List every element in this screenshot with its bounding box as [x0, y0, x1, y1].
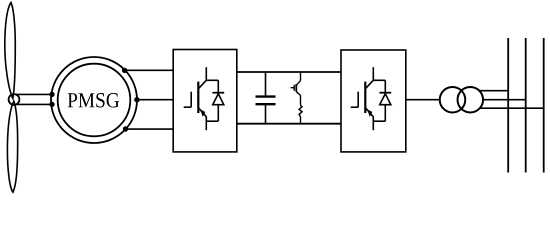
transformer T1 primary circle: [440, 87, 466, 113]
transistor Q3 body bar: [364, 82, 366, 113]
transistor Q2 gate bar: [293, 85, 295, 91]
wire grid phase B: [483, 99, 526, 101]
wire Q3 emitter stub: [372, 117, 374, 122]
wire grid phase C: [480, 107, 544, 109]
capacitor C1 bottom plate: [256, 103, 276, 105]
transistor Q3 emitter arrow: [367, 109, 372, 117]
wire Q3 bottom link: [373, 120, 385, 122]
diode D1 bottom lead: [217, 105, 219, 122]
capacitor C1 bottom lead: [265, 104, 267, 123]
diode D2 bottom lead: [384, 105, 386, 122]
transistor Q2 gate lead: [291, 87, 295, 89]
label PMSG: [68, 93, 119, 107]
transistor Q3 gate lead: [351, 106, 359, 108]
resistor R1 zigzag: [299, 105, 302, 116]
transistor Q3 emitter angle: [365, 108, 373, 117]
stator wire phase B: [137, 99, 173, 101]
diode D1 top lead: [217, 80, 219, 93]
turbine blade top: [5, 3, 16, 99]
diode D2 triangle: [380, 94, 391, 105]
diode D2 cathode bar: [379, 92, 391, 94]
wire DC bus bottom: [237, 123, 341, 125]
grid bus bar 2: [525, 38, 527, 173]
diode D1 triangle: [213, 94, 224, 105]
diode D1 cathode bar: [212, 92, 224, 94]
wire Q2 to resistor: [300, 95, 302, 105]
generator G1 outer circle: [51, 57, 137, 143]
grid bus bar 3: [543, 38, 545, 173]
shaft junction dot lower: [50, 103, 54, 107]
converter U1 box (rectifier): [173, 50, 237, 152]
converter U2 box (inverter): [341, 50, 406, 152]
wire Q1 bottom terminal: [205, 121, 207, 130]
transistor Q2 collector angle: [296, 81, 300, 86]
shaft junction dot upper: [50, 93, 54, 97]
wire Q1 bottom link: [206, 120, 218, 122]
turbine hub: [9, 94, 20, 105]
generator G1 inner circle: [58, 64, 131, 137]
node phase A dot: [123, 69, 127, 73]
transistor Q1 body bar: [197, 82, 199, 113]
turbine blade bottom: [7, 101, 17, 192]
wire Q3 top link: [373, 79, 385, 81]
resistor R1 bottom lead: [300, 117, 302, 124]
transistor Q2 chopper drop: [300, 72, 302, 81]
wire Q3 bottom terminal: [372, 121, 374, 130]
stator wire phase A: [125, 69, 173, 71]
transistor Q3 gate bar: [357, 92, 359, 108]
transformer T1 secondary circle: [458, 87, 484, 113]
transistor Q3 collector stub: [372, 67, 374, 80]
wire Q1 top link: [206, 79, 218, 81]
capacitor C1 top plate: [256, 95, 276, 97]
wire Q1 emitter stub: [205, 117, 207, 122]
stator wire phase C: [126, 128, 173, 130]
transistor Q3 collector angle: [365, 80, 373, 89]
transistor Q1 collector stub: [205, 67, 207, 80]
node phase C dot: [124, 127, 128, 131]
capacitor C1 top lead: [265, 72, 267, 96]
diode D2 top lead: [384, 80, 386, 93]
transistor Q1 gate bar: [190, 92, 192, 108]
transistor Q1 collector angle: [198, 80, 206, 89]
shaft wire upper: [16, 93, 52, 95]
transistor Q1 emitter angle: [198, 108, 206, 117]
node phase B dot: [135, 98, 139, 102]
grid bus bar 1: [507, 38, 509, 173]
transistor Q1 emitter arrow: [200, 109, 205, 117]
transistor Q1 gate lead: [184, 106, 192, 108]
wire DC bus top: [237, 71, 341, 73]
transistor Q2 emitter angle: [296, 92, 300, 96]
wire inverter output: [406, 99, 440, 101]
shaft wire lower: [16, 103, 52, 105]
wire grid phase A: [480, 90, 509, 92]
transistor Q2 body bar: [295, 84, 297, 92]
